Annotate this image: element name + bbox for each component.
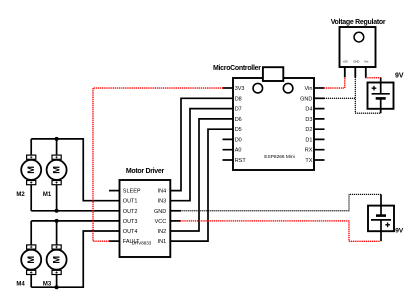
wire MCU GND stub [314, 97, 325, 99]
wire bottom bus to OUT4 [31, 231, 119, 287]
svg-text:D1: D1 [305, 137, 312, 143]
wire M2- lead [30, 185, 32, 211]
junction dot M3 top [55, 219, 59, 223]
svg-text:A0: A0 [235, 148, 242, 154]
svg-text:RX: RX [305, 148, 313, 154]
svg-text:OUT1: OUT1 [123, 199, 138, 205]
battery BT1 top lead [380, 78, 382, 94]
wire 3V3 stub [223, 87, 234, 89]
wire driver GND stub [170, 210, 181, 212]
voltage regulator U3 [340, 27, 376, 67]
battery BT1 plus plate [372, 93, 390, 95]
wire M4- lead [30, 274, 32, 287]
svg-text:GND: GND [300, 96, 312, 102]
wire 3V3 to FAULT (red dashed) [93, 88, 223, 241]
svg-text:RST: RST [235, 158, 247, 164]
svg-text:M: M [26, 166, 36, 174]
battery BT2 9V [368, 206, 394, 232]
wire driver VCC stub [170, 220, 181, 222]
wire D7 to IN3 [170, 109, 233, 201]
MCU stubs D4 D3 D2 D1 RX TX [314, 109, 325, 160]
svg-text:MicroController: MicroController [213, 65, 261, 72]
svg-text:Voltage Regulator: Voltage Regulator [331, 19, 386, 26]
regulator hole [354, 32, 364, 42]
wire MCU GND to regulator GND (black dotted) [325, 97, 356, 99]
svg-text:Vin: Vin [305, 86, 313, 92]
wire M2+ lead [30, 139, 32, 155]
svg-text:TX: TX [305, 158, 312, 164]
wire D6 to IN2 [170, 119, 233, 231]
svg-text:OUT3: OUT3 [123, 219, 138, 225]
wire regulator Vin to battery1 plus (red dashed) [366, 77, 381, 79]
svg-text:D5: D5 [235, 127, 242, 133]
svg-text:SLEEP: SLEEP [123, 189, 141, 195]
motor M1 [47, 155, 67, 185]
mounting hole left [253, 83, 263, 93]
svg-text:D2: D2 [305, 127, 312, 133]
battery BT2 bottom lead [380, 220, 382, 241]
wire D8 to IN4 [170, 98, 233, 190]
svg-text:M2: M2 [16, 192, 25, 198]
battery BT2 plus mark [385, 223, 390, 228]
battery BT2 top lead [380, 194, 382, 215]
wire Vin stub [314, 87, 325, 89]
svg-text:DRV8833: DRV8833 [132, 241, 152, 246]
battery BT1 minus plate [376, 97, 386, 100]
wire D5 to IN1 [170, 129, 233, 241]
svg-text:M: M [26, 256, 36, 264]
svg-text:Motor Driver: Motor Driver [126, 168, 165, 175]
battery BT2 minus plate [376, 214, 386, 217]
svg-text:M: M [52, 166, 62, 174]
svg-text:ESP8266 Mini: ESP8266 Mini [264, 154, 294, 160]
wire bus to OUT3 [31, 220, 119, 222]
svg-text:IN3: IN3 [158, 199, 167, 205]
junction dot M1 top [55, 137, 59, 141]
svg-text:D6: D6 [235, 117, 242, 123]
svg-text:GND: GND [353, 60, 359, 64]
svg-text:+5V: +5V [343, 60, 348, 64]
regulator legs [345, 67, 366, 78]
MCU stubs D0 A0 RST [223, 139, 234, 160]
battery BT1 plus mark [372, 86, 377, 91]
svg-text:9V: 9V [395, 73, 404, 80]
microcontroller U1 ESP8266 Mini [233, 78, 314, 170]
svg-text:IN1: IN1 [158, 239, 167, 245]
motor M2 [21, 155, 41, 185]
svg-text:Vin: Vin [364, 60, 368, 64]
wire top bus M1/M2 to OUT1 [31, 139, 119, 201]
mounting hole right [283, 83, 293, 93]
svg-text:D4: D4 [305, 107, 312, 113]
wire bus to OUT2 [31, 210, 119, 212]
motor M3 [47, 245, 67, 275]
wire M4+ lead [30, 221, 32, 245]
svg-text:M4: M4 [16, 282, 25, 288]
svg-text:OUT2: OUT2 [123, 209, 138, 215]
svg-text:M: M [52, 256, 62, 264]
svg-text:D8: D8 [235, 96, 242, 102]
svg-text:D7: D7 [235, 107, 242, 113]
battery BT2 plus plate [371, 219, 391, 221]
wire driver VCC to battery2 plus (red dashed) [181, 221, 381, 241]
svg-text:D3: D3 [305, 117, 312, 123]
wire SLEEP stub [109, 190, 120, 192]
battery BT1 bottom lead [380, 98, 382, 113]
svg-text:3V3: 3V3 [235, 86, 245, 92]
wire M1- lead [56, 185, 58, 211]
wire M3+ lead [56, 221, 58, 245]
wire M1+ lead [56, 139, 58, 155]
wire M3- lead [56, 274, 58, 287]
junction dot M3 bottom [55, 285, 59, 289]
wire FAULT stub [109, 240, 120, 242]
svg-text:OUT4: OUT4 [123, 229, 138, 235]
svg-text:IN4: IN4 [158, 189, 167, 195]
svg-text:VCC: VCC [155, 219, 167, 225]
wire driver GND to battery2 minus (black dotted) [181, 194, 381, 210]
svg-text:GND: GND [154, 209, 166, 215]
wire regulator GND to battery1 minus (black dotted) [355, 78, 380, 114]
junction dot M1 bottom [55, 209, 59, 213]
svg-text:IN2: IN2 [158, 229, 167, 235]
motor M4 [21, 245, 41, 275]
svg-text:D0: D0 [235, 137, 242, 143]
usb notch [263, 67, 283, 81]
battery BT1 9V [368, 83, 394, 109]
wire Vin to +5V (red dashed) [325, 78, 345, 89]
svg-text:9V: 9V [395, 227, 404, 234]
svg-text:M1: M1 [43, 192, 52, 198]
motor driver U2 DRV8833 [120, 180, 171, 257]
